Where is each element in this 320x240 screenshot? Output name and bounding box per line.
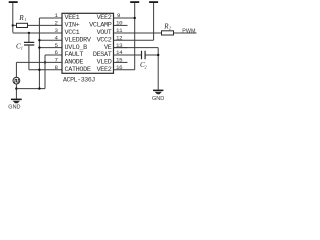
node: junction dot C1 top [28, 32, 30, 34]
power rail bar left (VCC1) [9, 1, 18, 3]
ground GND2 symbol [153, 90, 163, 95]
IC U1 ACPL-336J box [62, 13, 114, 73]
pin 11 number [116, 27, 123, 34]
wire: pin 13 row VE to right vertical [114, 47, 159, 49]
pin label CATHODE [65, 66, 91, 74]
node: dot pin4 on VEE1 vertical [38, 39, 40, 41]
pin 6 number [55, 49, 59, 56]
svg-text:GND: GND [8, 105, 20, 111]
svg-text:PWM: PWM [182, 28, 196, 34]
node: dot bottom rail junction [15, 87, 17, 89]
wire: VCC1 rail vertical down to corner [12, 3, 14, 33]
pin label VEE1 [65, 14, 80, 22]
wire: pin 7 row ANODE to source [16, 61, 62, 63]
svg-text:2: 2 [169, 26, 171, 31]
pin 16 number [116, 64, 123, 71]
pin 12 number [116, 34, 123, 41]
wire: bottom rail horizontal [16, 88, 45, 90]
wire: capacitor C2 to VE vertical [145, 54, 158, 56]
pin label VCC1 [65, 29, 80, 37]
wire: pin 16 row to VEE2 vertical [114, 69, 135, 71]
pin 7 number [55, 57, 59, 64]
svg-text:ACPL-336J: ACPL-336J [63, 77, 95, 84]
pin label ANODE [65, 59, 84, 67]
wire: pin 13 stub VE short [114, 47, 128, 49]
power rail bar right 1 (VEE2) [130, 1, 139, 3]
pin 8 number [55, 64, 59, 71]
label R2 [163, 22, 171, 30]
node: dot DESAT joins VE vertical [157, 54, 159, 56]
label R1 [18, 14, 26, 22]
wire: VCC1 row to IC pin 3 [13, 32, 62, 34]
pin 9 number [117, 12, 121, 19]
pin 15 number [116, 57, 123, 64]
power rail bar right 2 (VCC2) [149, 1, 158, 3]
pin 5 number [55, 42, 59, 49]
wire: source top stem [15, 62, 17, 77]
wire: pin 5 row UVLO_B [39, 47, 62, 49]
wire: pin 14 row DESAT to capacitor [114, 54, 142, 56]
wire: pin 12 row VCC2 [114, 39, 154, 41]
label PWM [182, 28, 196, 34]
node: dot pin7 crossing on FAULT vertical [44, 61, 46, 63]
resistor R2 [162, 31, 174, 35]
wire: VEE2 vertical from rail to pin16 [134, 3, 136, 70]
wire: source bottom stem to ground [15, 84, 17, 99]
label C1 [16, 42, 23, 50]
wire: pin 1 row VEE1 to vertical [39, 17, 62, 19]
wire: pin 9 row to VEE2 vertical [114, 17, 135, 19]
node: dot pin8 on VEE1 vertical [38, 69, 40, 71]
wire: C1 top stem [28, 33, 30, 42]
capacitor C1 [24, 42, 34, 45]
pin label VEE2 bottom [97, 66, 112, 74]
node: dot pin5 on VEE1 vertical [38, 46, 40, 48]
pin 4 number [55, 34, 59, 41]
wire: pin 15 stub VLED [114, 61, 128, 63]
wire: pin 11 row VOUT to PWM [114, 32, 197, 34]
label GND right [152, 96, 164, 102]
wire: VEE1 vertical [38, 18, 40, 89]
wire: pin 8 row from C1 corner to IC [29, 69, 62, 71]
svg-text:1: 1 [21, 46, 23, 51]
resistor R1 [17, 23, 28, 27]
label GND left [8, 105, 20, 111]
pin label DESAT [93, 51, 112, 59]
pin 14 number [116, 49, 123, 56]
svg-text:CATHODE: CATHODE [65, 66, 91, 74]
source V1 pulse generator circle [13, 77, 20, 84]
pin label VLED [97, 59, 112, 67]
ground GND1 symbol [11, 99, 22, 104]
pin 2 number [55, 20, 59, 27]
pin label VOUT [97, 29, 112, 37]
wire: FAULT vertical down to bottom rail [44, 55, 46, 89]
pin label VLEDDRV [65, 36, 92, 44]
pin label VCC2 [97, 36, 112, 44]
pin label VE [104, 44, 112, 52]
pin 13 number [116, 42, 123, 49]
pin label VIN+ [65, 22, 80, 30]
pin label VCLAMP [89, 22, 112, 30]
svg-text:1: 1 [24, 17, 26, 22]
wire: pin 6 row FAULT to vertical [45, 54, 62, 56]
node: dot pin9 on VEE2 vertical [134, 17, 136, 19]
pin 10 number [116, 20, 123, 27]
svg-text:2: 2 [145, 64, 147, 69]
pin 1 number [55, 12, 59, 19]
pin label VEE2 top [97, 14, 112, 22]
label C2 [140, 61, 147, 69]
node: junction dot R1 tap [12, 24, 14, 26]
wire: VE vertical down to ground [157, 48, 159, 90]
svg-text:VEE2: VEE2 [97, 66, 112, 74]
capacitor C2 [142, 51, 146, 59]
wire: VCC2 vertical from rail to pin12 row [153, 3, 155, 40]
node: dot VEE1 vertical meets bottom rail [38, 87, 40, 89]
label ACPL-336J [63, 77, 95, 84]
wire: C1 bottom stem down to pin8 row [28, 45, 30, 69]
wire: R1 row from dot to IC pin 2 [13, 24, 62, 26]
wire: pin 4 row VLEDDRV [39, 39, 62, 41]
wire: pin 10 stub VCLAMP [114, 24, 128, 26]
svg-text:GND: GND [152, 96, 164, 102]
pin 3 number [55, 27, 59, 34]
pin label UVLO_B [65, 44, 88, 52]
pin label FAULT [65, 51, 84, 59]
